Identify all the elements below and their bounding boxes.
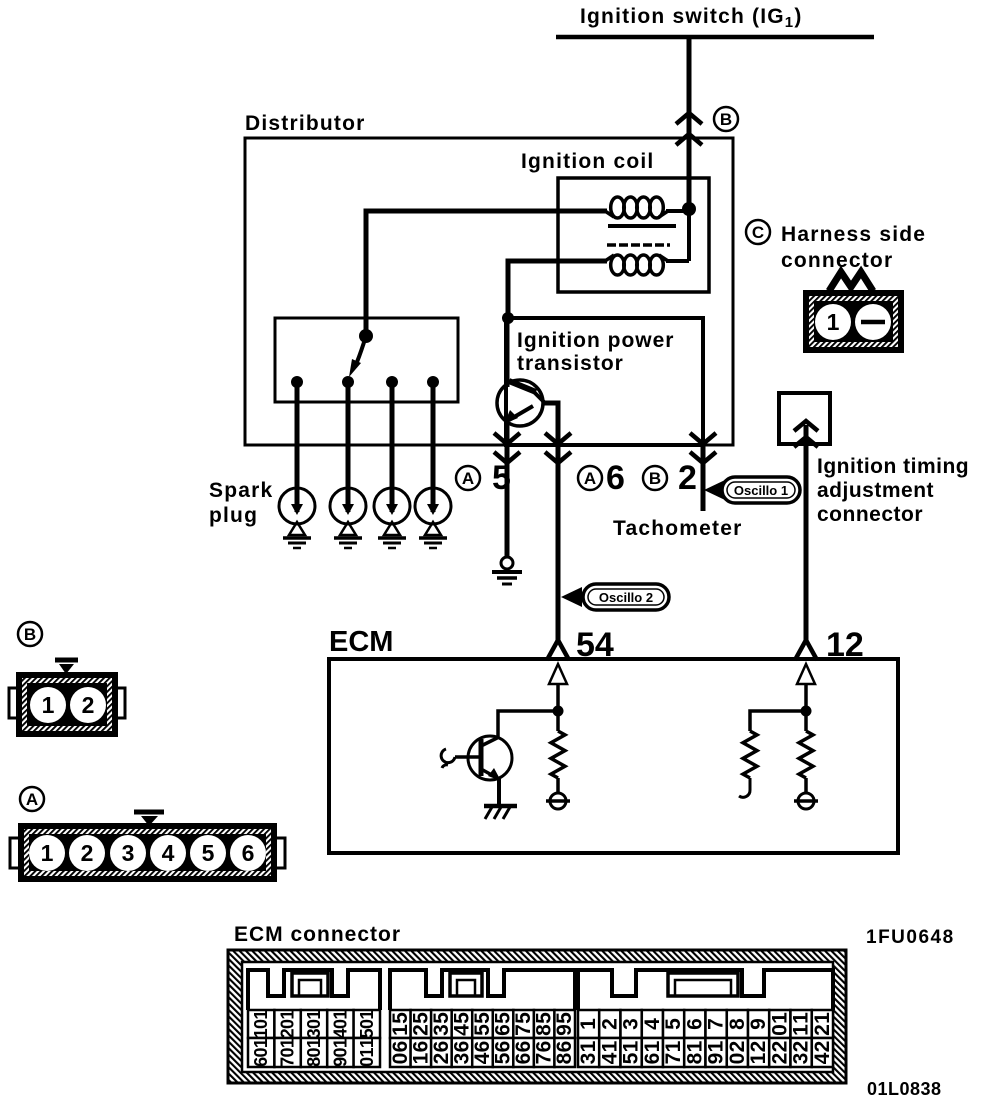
spark wire 2	[346, 382, 351, 512]
svg-text:2: 2	[409, 1024, 432, 1036]
svg-text:0: 0	[251, 1047, 271, 1057]
svg-text:5: 5	[389, 1012, 412, 1024]
svg-text:Ignition coil: Ignition coil	[521, 150, 654, 173]
svg-text:5: 5	[492, 1052, 515, 1064]
svg-text:connector: connector	[817, 503, 923, 526]
svg-text:0: 0	[330, 1047, 350, 1057]
svg-text:2: 2	[811, 1041, 834, 1053]
pin 22	[768, 1038, 791, 1067]
pin 66	[512, 1038, 535, 1067]
ignition switch bus bar	[556, 35, 874, 40]
svg-text:9: 9	[330, 1057, 350, 1067]
svg-text:1: 1	[827, 309, 840, 335]
connector arrows B2 crossing	[690, 433, 716, 463]
svg-text:1: 1	[278, 1010, 298, 1020]
open end curl R2	[739, 778, 750, 797]
tachometer wire	[701, 445, 706, 511]
svg-text:8: 8	[726, 1018, 749, 1030]
connector C body	[803, 272, 904, 353]
svg-text:1: 1	[768, 1012, 791, 1024]
svg-text:plug: plug	[209, 504, 258, 527]
svg-text:1: 1	[330, 1010, 350, 1020]
svg-text:1: 1	[409, 1052, 432, 1064]
svg-text:4: 4	[598, 1052, 621, 1064]
svg-text:9: 9	[553, 1024, 576, 1036]
oscillo 1 probe callout	[704, 477, 800, 503]
pin 7	[705, 1010, 728, 1038]
svg-text:7: 7	[533, 1053, 556, 1065]
svg-text:A: A	[26, 790, 38, 809]
circled B pin 2 label	[643, 459, 697, 497]
pin 59	[553, 1010, 576, 1038]
svg-text:1: 1	[304, 1010, 324, 1020]
svg-text:4: 4	[450, 1024, 473, 1036]
svg-text:5: 5	[533, 1012, 556, 1024]
svg-text:Spark: Spark	[209, 479, 273, 502]
svg-text:Harness side: Harness side	[781, 223, 926, 246]
svg-text:2: 2	[678, 459, 697, 497]
svg-text:1: 1	[357, 1038, 377, 1048]
svg-text:0: 0	[251, 1019, 271, 1029]
pin 23	[790, 1038, 813, 1067]
svg-text:3: 3	[790, 1053, 813, 1065]
pin 53	[430, 1010, 453, 1038]
wire secondary left lead to power transistor base	[508, 261, 607, 318]
svg-text:1: 1	[662, 1040, 685, 1052]
ECM connector group right outline	[578, 970, 833, 1010]
svg-text:2: 2	[811, 1024, 834, 1036]
pin 55	[471, 1010, 494, 1038]
pin 17	[662, 1038, 685, 1067]
svg-text:5: 5	[202, 840, 215, 866]
svg-text:2: 2	[430, 1053, 453, 1065]
svg-text:6: 6	[430, 1041, 453, 1053]
ECM connector group left outline	[248, 970, 380, 1010]
svg-text:6: 6	[641, 1053, 664, 1065]
junction node base wire on box edge	[502, 312, 514, 324]
svg-text:6: 6	[409, 1041, 432, 1053]
spark wire 1	[295, 382, 300, 512]
pin 102	[274, 1010, 300, 1039]
svg-text:01L0838: 01L0838	[867, 1079, 942, 1099]
pin 12	[811, 1010, 834, 1038]
svg-text:1: 1	[389, 1024, 412, 1036]
resistor R2	[743, 731, 757, 778]
breaker pickup box	[275, 318, 458, 402]
svg-text:6: 6	[512, 1041, 535, 1053]
svg-text:A: A	[462, 469, 474, 488]
svg-text:ECM: ECM	[329, 626, 393, 658]
svg-text:1: 1	[811, 1012, 834, 1024]
ECM connector group middle outline	[390, 970, 575, 1010]
svg-text:5: 5	[492, 459, 511, 497]
svg-text:6: 6	[492, 1024, 515, 1036]
svg-text:2: 2	[81, 840, 94, 866]
pin 109	[327, 1038, 353, 1067]
svg-text:1: 1	[304, 1038, 324, 1048]
connector B body	[9, 660, 125, 737]
svg-text:3: 3	[450, 1053, 473, 1065]
svg-text:connector: connector	[781, 249, 893, 272]
spark plug 4	[415, 488, 451, 548]
pin 21	[747, 1038, 770, 1067]
svg-text:0: 0	[278, 1047, 298, 1057]
svg-text:Ignition power: Ignition power	[517, 329, 674, 352]
svg-text:8: 8	[533, 1024, 556, 1036]
sensor ground symbol R3	[794, 793, 818, 809]
spark wire 4	[431, 382, 436, 512]
wire coil primary lead (horizontal)	[366, 211, 607, 336]
pin 18	[683, 1038, 706, 1067]
pin 9	[747, 1010, 770, 1038]
coil core lines	[607, 226, 676, 245]
wire to ECM transistor	[498, 711, 558, 737]
secondary winding L2	[605, 207, 689, 275]
svg-text:1: 1	[42, 692, 55, 718]
svg-text:1: 1	[577, 1018, 600, 1030]
pin 110	[354, 1038, 380, 1067]
pin 5	[662, 1010, 685, 1038]
svg-text:Ignition switch (IG1): Ignition switch (IG1)	[580, 5, 803, 31]
circled A pin 6 label	[578, 459, 625, 497]
ECM label	[329, 626, 393, 658]
ECM box	[329, 659, 898, 853]
svg-text:7: 7	[278, 1057, 298, 1067]
svg-text:2: 2	[790, 1041, 813, 1053]
spark plug 3	[374, 488, 410, 548]
svg-text:5: 5	[492, 1012, 515, 1024]
svg-text:4: 4	[811, 1052, 834, 1064]
svg-text:7: 7	[662, 1053, 685, 1065]
svg-text:0: 0	[330, 1019, 350, 1029]
svg-text:0: 0	[357, 1057, 377, 1067]
contact node x=433	[427, 376, 439, 388]
ignition switch (IG1) label	[580, 5, 803, 31]
junction node 12	[801, 706, 812, 717]
svg-text:9: 9	[705, 1053, 728, 1065]
svg-text:0: 0	[357, 1019, 377, 1029]
circled C harness label	[746, 220, 926, 272]
rotor arm	[349, 329, 373, 377]
svg-text:B: B	[649, 469, 661, 488]
svg-text:Oscillo 1: Oscillo 1	[734, 483, 788, 498]
part number 01L0838	[867, 1079, 942, 1099]
pin 68	[553, 1038, 576, 1067]
pin 16	[641, 1038, 664, 1067]
ignition coil box	[558, 178, 709, 292]
connector A body	[10, 812, 285, 882]
pin 105	[354, 1010, 380, 1039]
svg-text:0: 0	[389, 1053, 412, 1065]
svg-text:5: 5	[662, 1018, 685, 1030]
connector arrows timing up	[794, 421, 818, 447]
pin 56	[492, 1010, 515, 1038]
svg-text:6: 6	[512, 1053, 535, 1065]
svg-text:transistor: transistor	[517, 352, 624, 375]
wire from ignition switch down to coil supply node	[687, 37, 692, 208]
male pin arrow 54	[549, 664, 567, 711]
wire base into transistor	[505, 318, 510, 387]
Ignition power transistor label	[517, 329, 674, 375]
svg-text:5: 5	[471, 1024, 494, 1036]
svg-text:2: 2	[768, 1041, 791, 1053]
contact node x=297	[291, 376, 303, 388]
wire timing connector to ECM pin 12	[804, 425, 809, 640]
svg-text:2: 2	[598, 1018, 621, 1030]
Ignition timing adjustment connector label	[817, 455, 969, 526]
pin 1	[577, 1010, 600, 1038]
pin 13	[577, 1038, 600, 1067]
svg-text:7: 7	[705, 1018, 728, 1030]
pin 15	[620, 1038, 643, 1067]
pin 20	[726, 1038, 749, 1067]
emitter wire to ground	[505, 421, 510, 558]
connector arrows B crossing distributor top	[676, 113, 702, 145]
Tachometer label	[613, 517, 742, 540]
svg-text:1FU0648: 1FU0648	[866, 927, 955, 948]
svg-text:1: 1	[278, 1038, 298, 1048]
svg-text:9: 9	[747, 1018, 770, 1030]
resistor R1 below node 54	[551, 711, 565, 794]
pin 64	[471, 1038, 494, 1067]
svg-text:8: 8	[683, 1052, 706, 1064]
pin number 54	[576, 626, 614, 664]
svg-text:1: 1	[747, 1052, 770, 1064]
svg-text:7: 7	[512, 1024, 535, 1036]
svg-text:B: B	[24, 625, 36, 644]
contact node x=392	[386, 376, 398, 388]
svg-text:0: 0	[726, 1053, 749, 1065]
svg-text:1: 1	[577, 1040, 600, 1052]
pin number 12	[826, 626, 864, 664]
ignition power transistor box	[506, 318, 703, 445]
svg-text:0: 0	[768, 1024, 791, 1036]
pin 11	[790, 1010, 813, 1038]
svg-text:6: 6	[251, 1057, 271, 1067]
svg-text:2: 2	[726, 1041, 749, 1053]
svg-text:4: 4	[471, 1052, 494, 1064]
svg-text:Oscillo 2: Oscillo 2	[599, 590, 653, 605]
pin 106	[248, 1038, 274, 1067]
svg-text:8: 8	[553, 1052, 576, 1064]
svg-text:5: 5	[512, 1012, 535, 1024]
pin 62	[430, 1038, 453, 1067]
spark plug 2	[330, 488, 366, 548]
fork terminal at ECM 54	[547, 640, 569, 660]
circled A pin 5 label	[456, 459, 511, 497]
transistor Q1 ignition power	[497, 380, 545, 426]
svg-text:Ignition timing: Ignition timing	[817, 455, 969, 478]
pin 10	[768, 1010, 791, 1038]
primary winding L1	[605, 197, 689, 218]
svg-text:1: 1	[357, 1047, 377, 1057]
circled B connector label	[18, 622, 42, 646]
Spark plug label	[209, 479, 273, 527]
pin 108	[301, 1038, 327, 1067]
circled B at distributor top crossing	[714, 107, 738, 131]
resistor R3 below node 12	[799, 711, 813, 794]
svg-text:B: B	[720, 110, 732, 129]
ECM connector label	[234, 923, 401, 946]
svg-text:adjustment: adjustment	[817, 479, 934, 502]
svg-text:1: 1	[790, 1012, 813, 1024]
pin 65	[492, 1038, 515, 1067]
svg-text:6: 6	[492, 1041, 515, 1053]
svg-text:3: 3	[620, 1018, 643, 1030]
pin 101	[248, 1010, 274, 1039]
svg-text:5: 5	[471, 1012, 494, 1024]
pin 60	[389, 1038, 412, 1067]
svg-text:6: 6	[389, 1041, 412, 1053]
sensor ground symbol R1	[546, 793, 570, 809]
pin 51	[389, 1010, 412, 1038]
pin 3	[620, 1010, 643, 1038]
svg-text:6: 6	[450, 1041, 473, 1053]
ignition timing adjustment connector box	[779, 393, 830, 444]
pin 54	[450, 1010, 473, 1038]
pin 19	[705, 1038, 728, 1067]
svg-text:1: 1	[705, 1040, 728, 1052]
svg-text:6: 6	[606, 459, 625, 497]
svg-text:C: C	[752, 223, 764, 242]
fork terminal at ECM 12	[795, 640, 817, 660]
Ignition coil label	[521, 150, 654, 173]
ground below transistor emitter	[492, 557, 522, 584]
svg-text:5: 5	[409, 1012, 432, 1024]
pin 103	[301, 1010, 327, 1039]
svg-text:3: 3	[577, 1053, 600, 1065]
svg-text:1: 1	[330, 1038, 350, 1048]
contact node x=348	[342, 376, 354, 388]
svg-text:6: 6	[533, 1041, 556, 1053]
distributor box	[245, 138, 733, 445]
pin 63	[450, 1038, 473, 1067]
svg-text:8: 8	[304, 1057, 324, 1067]
svg-text:4: 4	[162, 840, 175, 866]
pin 58	[533, 1010, 556, 1038]
svg-text:6: 6	[683, 1018, 706, 1030]
svg-text:2: 2	[82, 692, 95, 718]
oscillo 2 probe callout	[561, 584, 669, 610]
pin 61	[409, 1038, 432, 1067]
svg-text:0: 0	[304, 1019, 324, 1029]
pin 107	[274, 1038, 300, 1067]
pin 52	[409, 1010, 432, 1038]
male pin arrow 12	[797, 664, 815, 711]
svg-text:0: 0	[278, 1019, 298, 1029]
transistor Q2 in ECM	[441, 736, 512, 781]
pin 104	[327, 1010, 353, 1039]
pin 6	[683, 1010, 706, 1038]
spark plug 1	[279, 488, 315, 548]
svg-text:1: 1	[683, 1040, 706, 1052]
pin 8	[726, 1010, 749, 1038]
connector arrows A5 crossing	[494, 433, 520, 463]
spark wire 3	[390, 382, 395, 512]
svg-text:6: 6	[471, 1041, 494, 1053]
junction node coil supply	[682, 202, 696, 216]
pin 24	[811, 1038, 834, 1067]
svg-text:6: 6	[553, 1041, 576, 1053]
svg-text:Distributor: Distributor	[245, 112, 366, 135]
ECM connector housing	[228, 950, 846, 1083]
svg-text:1: 1	[641, 1040, 664, 1052]
svg-text:3: 3	[430, 1024, 453, 1036]
svg-text:5: 5	[620, 1052, 643, 1064]
part number 1FU0648	[866, 927, 955, 948]
pin 14	[598, 1038, 621, 1067]
svg-text:5: 5	[553, 1012, 576, 1024]
svg-text:5: 5	[450, 1012, 473, 1024]
svg-text:Tachometer: Tachometer	[613, 517, 742, 540]
Distributor label	[245, 112, 366, 135]
svg-text:1: 1	[620, 1040, 643, 1052]
svg-text:1: 1	[598, 1040, 621, 1052]
pin 2	[598, 1010, 621, 1038]
svg-text:0: 0	[304, 1047, 324, 1057]
svg-text:6: 6	[242, 840, 255, 866]
svg-text:1: 1	[251, 1038, 271, 1048]
svg-text:1: 1	[41, 840, 54, 866]
svg-text:1: 1	[790, 1024, 813, 1036]
svg-text:5: 5	[430, 1012, 453, 1024]
svg-text:4: 4	[641, 1018, 664, 1030]
ground ECM transistor emitter	[484, 779, 517, 819]
junction node 54	[553, 706, 564, 717]
svg-text:2: 2	[768, 1053, 791, 1065]
svg-text:ECM connector: ECM connector	[234, 923, 401, 946]
pin 57	[512, 1010, 535, 1038]
circled A connector label	[20, 787, 44, 811]
collector wire to ECM pin 54	[542, 403, 558, 640]
wire to resistor R2	[750, 711, 806, 731]
svg-text:2: 2	[747, 1041, 770, 1053]
svg-text:1: 1	[251, 1010, 271, 1020]
pin 4	[641, 1010, 664, 1038]
svg-text:3: 3	[122, 840, 135, 866]
svg-text:A: A	[584, 469, 596, 488]
pin 67	[533, 1038, 556, 1067]
connector arrows A6 crossing	[545, 433, 571, 463]
